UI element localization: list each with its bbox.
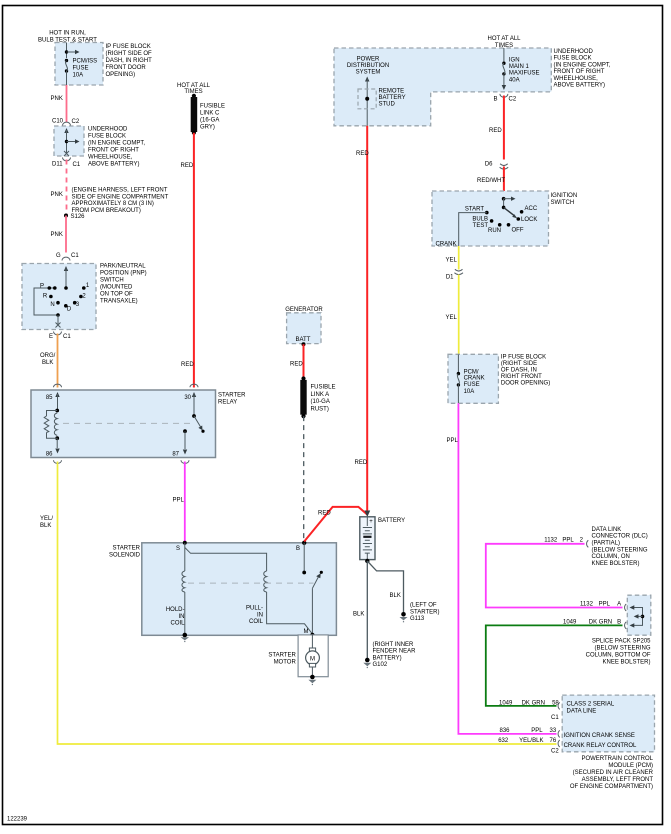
wire (dashed) fusible link A to solenoid B — [303, 416, 305, 541]
wire RED battery to solenoid B — [304, 507, 367, 542]
IP fuse block (top left) — [55, 43, 103, 86]
svg-text:STARTER: STARTER — [218, 393, 246, 399]
svg-text:76: 76 — [550, 738, 557, 744]
svg-text:POSITION (PNP): POSITION (PNP) — [100, 271, 147, 277]
svg-text:DASH, IN RIGHT: DASH, IN RIGHT — [106, 58, 153, 64]
svg-text:122239: 122239 — [7, 817, 28, 823]
svg-text:MOTOR: MOTOR — [274, 659, 297, 665]
svg-text:C2: C2 — [509, 96, 517, 102]
starter motor — [298, 635, 328, 677]
svg-text:G102: G102 — [373, 662, 388, 668]
svg-text:SIDE OF ENGINE COMPARTMENT: SIDE OF ENGINE COMPARTMENT — [72, 194, 169, 200]
pin 86 — [55, 449, 59, 454]
svg-text:ORG/: ORG/ — [40, 353, 56, 359]
relay coil — [55, 409, 59, 413]
svg-text:M: M — [304, 629, 309, 635]
svg-text:RED: RED — [181, 163, 194, 169]
svg-text:C10: C10 — [52, 119, 64, 125]
svg-text:BATTERY: BATTERY — [378, 518, 405, 524]
svg-text:(SECURED IN AIR CLEANER: (SECURED IN AIR CLEANER — [573, 770, 654, 776]
svg-text:BLK: BLK — [353, 611, 364, 617]
wire feed inside IP fuse block — [66, 43, 68, 58]
svg-text:PNK: PNK — [51, 96, 63, 102]
connector D1 — [454, 269, 463, 274]
svg-text:30: 30 — [184, 395, 191, 401]
wire PNK dashed harness segment — [66, 160, 68, 215]
svg-text:HOLD-: HOLD- — [166, 607, 185, 613]
svg-text:PULL-: PULL- — [246, 606, 263, 612]
svg-text:1049: 1049 — [563, 619, 577, 625]
svg-text:COIL: COIL — [249, 619, 264, 625]
svg-text:YEL/BLK: YEL/BLK — [519, 738, 543, 744]
svg-text:D1: D1 — [446, 274, 454, 280]
svg-text:FUSIBLE: FUSIBLE — [311, 385, 336, 391]
PCM box — [562, 695, 654, 752]
svg-text:RELAY: RELAY — [218, 399, 237, 405]
svg-text:PNK: PNK — [51, 232, 63, 238]
ground (starter motor case) — [310, 675, 315, 680]
svg-text:C1: C1 — [551, 715, 559, 721]
relay switch arm — [192, 414, 196, 418]
svg-text:IP FUSE BLOCK: IP FUSE BLOCK — [106, 44, 151, 50]
svg-text:STARTER): STARTER) — [410, 609, 439, 615]
svg-text:M: M — [310, 657, 315, 663]
battery negative junction — [365, 559, 369, 563]
svg-text:ABOVE BATTERY): ABOVE BATTERY) — [554, 83, 605, 89]
svg-text:FROM PCM BREAKOUT): FROM PCM BREAKOUT) — [72, 208, 141, 214]
svg-text:START: START — [465, 207, 484, 213]
svg-text:33: 33 — [550, 728, 557, 734]
svg-text:KNEE BOLSTER): KNEE BOLSTER) — [592, 561, 640, 567]
svg-text:C1: C1 — [73, 162, 81, 168]
wire PPL fuse to PCM pin 33 — [458, 403, 556, 734]
svg-text:CRANK: CRANK — [464, 376, 485, 382]
arrow into battery — [364, 511, 370, 518]
svg-text:PARK/NEUTRAL: PARK/NEUTRAL — [100, 264, 146, 270]
svg-text:FENDER NEAR: FENDER NEAR — [373, 649, 417, 655]
svg-text:85: 85 — [46, 395, 53, 401]
svg-text:COLUMN, BOTTOM OF: COLUMN, BOTTOM OF — [586, 652, 651, 658]
svg-text:S126: S126 — [71, 214, 86, 220]
svg-text:KNEE BOLSTER): KNEE BOLSTER) — [602, 659, 650, 665]
svg-text:OPENING): OPENING) — [106, 72, 136, 78]
battery — [360, 517, 375, 560]
svg-text:RED: RED — [181, 362, 194, 368]
svg-text:DATA LINK: DATA LINK — [592, 527, 622, 533]
wire RED/WHT to ignition switch — [503, 167, 505, 199]
wire BLK battery to G113 — [367, 561, 403, 613]
svg-text:FRONT OF RIGHT: FRONT OF RIGHT — [88, 148, 139, 154]
svg-text:LINK C: LINK C — [200, 110, 220, 116]
svg-text:(16-GA: (16-GA — [200, 118, 219, 124]
fuse PCM/ISS 10A — [65, 59, 68, 62]
svg-text:BATTERY: BATTERY — [379, 95, 406, 101]
svg-text:LINK A: LINK A — [311, 392, 330, 398]
svg-text:ABOVE BATTERY): ABOVE BATTERY) — [88, 162, 139, 168]
underhood fuse block (left) — [54, 126, 84, 156]
svg-text:(RIGHT SIDE: (RIGHT SIDE — [501, 361, 537, 367]
svg-text:FUSE: FUSE — [464, 382, 480, 388]
fuse PCM/CRANK 10A — [457, 355, 459, 373]
svg-text:OFF: OFF — [512, 227, 524, 233]
ignition switch internals — [502, 197, 506, 201]
svg-text:IGNITION: IGNITION — [551, 193, 578, 199]
svg-text:COLUMN, ON: COLUMN, ON — [592, 554, 630, 560]
remote battery stud — [365, 77, 369, 82]
wire DK GRN 1049 splice pack B to PCM 58 — [486, 625, 623, 706]
park/neutral position (PNP) switch — [22, 264, 96, 330]
svg-text:YEL: YEL — [446, 257, 458, 263]
svg-text:RED: RED — [318, 511, 331, 517]
svg-text:C1: C1 — [63, 334, 71, 340]
svg-text:SPLICE PACK SP205: SPLICE PACK SP205 — [592, 638, 651, 644]
svg-text:LOCK: LOCK — [521, 217, 537, 223]
wire RED to D6 — [503, 96, 505, 160]
svg-text:RED: RED — [290, 361, 303, 367]
svg-text:TRANSAXLE): TRANSAXLE) — [100, 299, 138, 305]
svg-text:GRY): GRY) — [200, 125, 215, 131]
svg-text:PPL: PPL — [531, 728, 543, 734]
svg-text:STARTER: STARTER — [268, 652, 296, 658]
svg-text:MODULE (PCM): MODULE (PCM) — [608, 763, 653, 769]
wire PPL relay 87 to solenoid S — [184, 462, 186, 543]
svg-text:IGNITION CRANK SENSE: IGNITION CRANK SENSE — [564, 733, 635, 739]
svg-text:IN: IN — [257, 612, 263, 618]
svg-text:BLK: BLK — [42, 360, 53, 366]
svg-text:D11: D11 — [52, 162, 63, 168]
svg-text:ON TOP OF: ON TOP OF — [100, 292, 133, 298]
svg-text:(RIGHT SIDE OF: (RIGHT SIDE OF — [106, 51, 153, 57]
svg-text:(10-GA: (10-GA — [311, 399, 330, 405]
svg-text:1132: 1132 — [544, 538, 558, 544]
wire RED power distribution to battery — [366, 126, 368, 513]
svg-text:PPL: PPL — [562, 538, 574, 544]
starter solenoid box — [142, 543, 337, 636]
starter relay box — [31, 390, 216, 458]
svg-text:STARTER: STARTER — [113, 545, 141, 551]
pin 87 — [183, 429, 187, 433]
wire PNK to PNP switch — [65, 216, 67, 253]
power distribution system / underhood fuse block (L-shaped box) — [334, 48, 551, 126]
svg-text:P: P — [40, 283, 44, 289]
svg-text:BATT: BATT — [296, 337, 311, 343]
wire YEL/BLK from pin 86 to PCM (bottom run) — [58, 462, 557, 745]
svg-text:SWITCH: SWITCH — [100, 278, 124, 284]
svg-text:BLK: BLK — [390, 593, 401, 599]
dashed actuation line — [188, 582, 314, 584]
svg-text:WHEELHOUSE,: WHEELHOUSE, — [554, 76, 599, 82]
svg-text:FUSE BLOCK: FUSE BLOCK — [554, 56, 592, 62]
svg-text:G: G — [56, 253, 61, 259]
svg-text:DATA LINE: DATA LINE — [567, 709, 597, 715]
svg-text:TEST: TEST — [473, 223, 489, 229]
svg-text:DISTRIBUTION: DISTRIBUTION — [347, 63, 389, 69]
svg-text:(PARTIAL): (PARTIAL) — [592, 541, 620, 547]
svg-text:N: N — [50, 302, 54, 308]
fusible link C — [192, 94, 196, 98]
fusible link A — [301, 376, 305, 380]
svg-text:HOT IN RUN,: HOT IN RUN, — [49, 31, 86, 37]
crank output wire — [459, 213, 487, 246]
svg-text:SWITCH: SWITCH — [551, 200, 575, 206]
svg-text:RED: RED — [489, 128, 502, 134]
svg-text:PPL: PPL — [447, 438, 459, 444]
svg-text:D6: D6 — [485, 162, 493, 168]
ignition switch box — [432, 191, 549, 246]
svg-text:(RIGHT INNER: (RIGHT INNER — [373, 642, 415, 648]
svg-text:(MOUNTED: (MOUNTED — [100, 285, 133, 291]
splice S126 — [64, 214, 68, 218]
svg-text:UNDERHOOD: UNDERHOOD — [554, 49, 594, 55]
svg-text:POWERTRAIN CONTROL: POWERTRAIN CONTROL — [581, 756, 653, 762]
svg-text:ASSEMBLY, LEFT FRONT: ASSEMBLY, LEFT FRONT — [582, 777, 654, 783]
svg-text:RED: RED — [356, 151, 369, 157]
pull-in coil — [264, 571, 267, 592]
wire YEL D1 to PCM/CRANK fuse — [458, 275, 460, 355]
svg-text:(IN ENGINE COMPT,: (IN ENGINE COMPT, — [554, 62, 611, 68]
svg-text:RED: RED — [355, 460, 368, 466]
svg-text:CRANK: CRANK — [436, 241, 457, 247]
svg-text:DK GRN: DK GRN — [522, 700, 545, 706]
svg-text:REMOTE: REMOTE — [379, 89, 405, 95]
svg-text:C2: C2 — [72, 119, 80, 125]
fuse IGN MAIN 1 MAXIFUSE 40A — [503, 48, 505, 62]
svg-text:PCM/ISS: PCM/ISS — [73, 59, 98, 65]
svg-text:R: R — [43, 294, 48, 300]
svg-text:PPL: PPL — [599, 601, 611, 607]
svg-text:(BELOW STEERING: (BELOW STEERING — [592, 547, 648, 553]
svg-text:BLK: BLK — [40, 523, 51, 529]
svg-text:(ENGINE HARNESS, LEFT FRONT: (ENGINE HARNESS, LEFT FRONT — [72, 188, 168, 194]
svg-text:10A: 10A — [73, 73, 84, 79]
svg-text:G113: G113 — [410, 616, 425, 622]
svg-text:FRONT OF RIGHT: FRONT OF RIGHT — [554, 69, 605, 75]
svg-text:A: A — [617, 601, 621, 607]
svg-text:632: 632 — [498, 738, 509, 744]
svg-text:IGN: IGN — [509, 57, 520, 63]
svg-text:TIMES: TIMES — [495, 43, 513, 49]
svg-text:GENERATOR: GENERATOR — [285, 307, 323, 313]
svg-text:WHEELHOUSE,: WHEELHOUSE, — [88, 155, 133, 161]
svg-text:HOT AT ALL: HOT AT ALL — [487, 36, 521, 42]
svg-text:CLASS 2 SERIAL: CLASS 2 SERIAL — [567, 702, 615, 708]
svg-text:C2: C2 — [551, 749, 559, 755]
svg-text:RED/WHT: RED/WHT — [477, 178, 505, 184]
svg-text:APPROXIMATELY 8 CM (3 IN): APPROXIMATELY 8 CM (3 IN) — [72, 201, 154, 207]
svg-text:CONNECTOR (DLC): CONNECTOR (DLC) — [592, 534, 648, 540]
svg-text:OF DASH, IN: OF DASH, IN — [501, 368, 537, 374]
svg-text:FUSE BLOCK: FUSE BLOCK — [88, 134, 126, 140]
svg-text:YEL: YEL — [446, 315, 458, 321]
wire BLK battery to G102 — [366, 561, 368, 659]
hold-in coil — [182, 571, 185, 592]
svg-text:MAIN 1: MAIN 1 — [509, 64, 530, 70]
svg-text:10A: 10A — [464, 389, 475, 395]
svg-text:C1: C1 — [71, 253, 79, 259]
svg-text:BULB: BULB — [472, 217, 488, 223]
svg-text:(LEFT OF: (LEFT OF — [410, 603, 437, 609]
svg-text:DOOR OPENING): DOOR OPENING) — [501, 380, 550, 386]
svg-text:CRANK RELAY CONTROL: CRANK RELAY CONTROL — [564, 743, 637, 749]
svg-text:RUN: RUN — [488, 228, 501, 234]
wire through underhood fuse block — [64, 128, 68, 133]
svg-text:IP FUSE BLOCK: IP FUSE BLOCK — [501, 355, 546, 361]
svg-text:FRONT DOOR: FRONT DOOR — [106, 65, 147, 71]
wire RED generator to fusible link A — [303, 344, 305, 378]
wire YEL ignition to D1 — [458, 246, 460, 270]
svg-text:B: B — [494, 96, 498, 102]
svg-text:MAXIFUSE: MAXIFUSE — [509, 71, 540, 77]
svg-text:COIL: COIL — [170, 621, 185, 627]
ground G113 — [401, 612, 406, 617]
svg-text:D: D — [67, 307, 72, 313]
svg-text:B: B — [296, 546, 300, 552]
svg-text:RUST): RUST) — [311, 406, 329, 412]
svg-text:1132: 1132 — [580, 601, 594, 607]
svg-text:E: E — [49, 334, 53, 340]
svg-text:B: B — [617, 619, 621, 625]
svg-text:HOT AT ALL: HOT AT ALL — [177, 83, 211, 89]
svg-text:POWER: POWER — [357, 56, 380, 62]
svg-text:DK GRN: DK GRN — [589, 619, 612, 625]
svg-text:SYSTEM: SYSTEM — [356, 70, 381, 76]
svg-text:PNK: PNK — [51, 192, 63, 198]
svg-text:(IN ENGINE COMPT,: (IN ENGINE COMPT, — [88, 141, 145, 147]
svg-text:40A: 40A — [509, 77, 520, 83]
svg-text:OF ENGINE COMPARTMENT): OF ENGINE COMPARTMENT) — [570, 784, 653, 790]
svg-text:BATTERY): BATTERY) — [373, 655, 402, 661]
svg-text:87: 87 — [172, 452, 179, 458]
svg-text:FUSIBLE: FUSIBLE — [200, 103, 225, 109]
svg-text:ACC: ACC — [525, 206, 538, 212]
wire PPL 1132 to DLC — [486, 544, 623, 608]
svg-text:RIGHT FRONT: RIGHT FRONT — [501, 374, 542, 380]
wire ORG/BLK to relay — [57, 334, 59, 388]
svg-text:+: + — [369, 519, 373, 525]
svg-text:IN: IN — [179, 614, 185, 620]
svg-text:FUSE: FUSE — [73, 66, 89, 72]
svg-text:UNDERHOOD: UNDERHOOD — [88, 127, 128, 133]
svg-text:836: 836 — [500, 728, 511, 734]
IP fuse block (PCM/CRANK fuse) — [448, 354, 498, 403]
svg-text:PPL: PPL — [173, 498, 185, 504]
svg-text:S: S — [176, 546, 180, 552]
dashed actuation line — [63, 422, 190, 424]
ground G102 — [365, 658, 370, 663]
PNP internals — [64, 266, 68, 271]
svg-text:(BELOW STEERING: (BELOW STEERING — [594, 645, 650, 651]
svg-text:SOLENOID: SOLENOID — [109, 552, 141, 558]
wire RED fusible link C to relay 30 — [193, 133, 195, 388]
wire PNK from IP fuse block — [66, 85, 68, 123]
connector D6 — [500, 164, 509, 169]
splice pack SP205 — [627, 595, 651, 635]
svg-text:86: 86 — [46, 452, 53, 458]
svg-text:PCM/: PCM/ — [464, 369, 479, 375]
svg-text:1049: 1049 — [499, 700, 513, 706]
svg-text:STUD: STUD — [379, 102, 396, 108]
svg-text:YEL/: YEL/ — [40, 516, 53, 522]
